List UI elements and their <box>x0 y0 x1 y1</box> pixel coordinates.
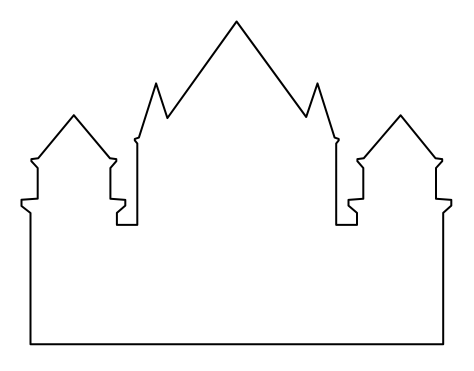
castle outline <box>22 22 452 345</box>
